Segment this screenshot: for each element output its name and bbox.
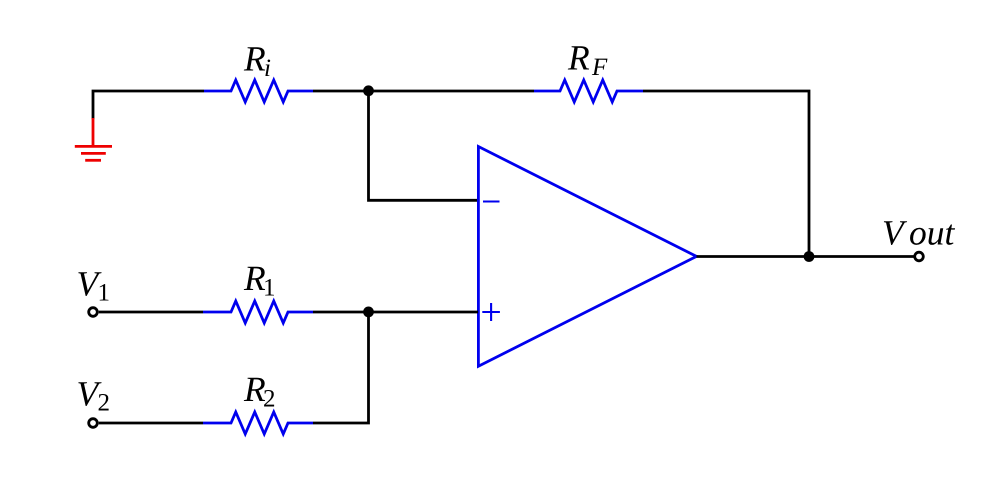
label V2 [78,382,101,406]
wire R2 up to node B [313,312,369,423]
terminal V1 [89,308,98,317]
wire ground corner to Ri [93,91,204,119]
wire R1 to node B [313,311,369,314]
plus symbol [482,303,500,321]
label RF [568,46,589,69]
node B junction [363,307,374,318]
op-amp U1 [478,147,696,367]
ground [75,118,112,160]
wire Ri to node A [313,90,369,93]
resistor R2 [203,412,313,434]
resistor RF [534,80,643,102]
minus symbol [483,200,500,202]
label R2 [244,378,265,401]
terminal V2 [89,419,98,428]
wire V2 to R2 [99,422,203,425]
resistor R1 [203,301,313,323]
label Vout [884,221,907,245]
node A junction [363,85,374,96]
wire RF to feedback corner, down to output node [643,91,809,257]
label Ri [244,47,265,70]
wire node B to non-inverting input [369,311,479,314]
wire node A down to inverting input [369,91,479,200]
wire node A to RF [369,90,535,93]
output node junction [804,251,815,262]
terminal Vout [915,252,924,261]
wire V1 to R1 [99,311,203,314]
label R1 [244,267,265,290]
wire op-amp output [697,255,915,258]
label V1 [78,272,101,296]
resistor Ri [204,80,313,102]
